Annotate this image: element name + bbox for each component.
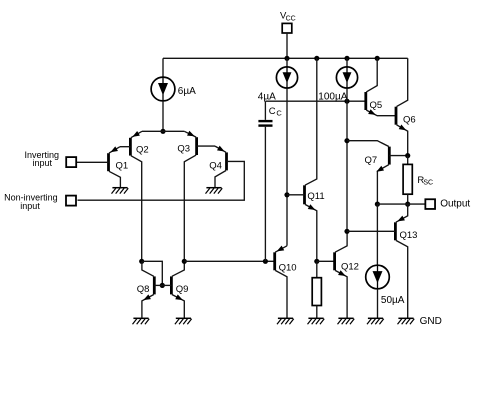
svg-text:Q13: Q13	[400, 230, 418, 241]
svg-text:Q9: Q9	[176, 284, 189, 295]
svg-text:SC: SC	[423, 180, 433, 187]
svg-text:CC: CC	[286, 16, 296, 23]
svg-text:GND: GND	[420, 316, 442, 327]
svg-text:C: C	[269, 106, 276, 117]
svg-text:50µA: 50µA	[381, 295, 405, 306]
svg-text:Q7: Q7	[365, 155, 378, 166]
svg-text:Q8: Q8	[137, 284, 150, 295]
svg-text:Q2: Q2	[136, 144, 149, 155]
svg-text:Q6: Q6	[403, 114, 416, 125]
svg-text:Q4: Q4	[209, 160, 222, 171]
svg-text:input: input	[33, 158, 53, 168]
svg-text:Q12: Q12	[341, 262, 359, 273]
svg-text:Q3: Q3	[177, 143, 190, 154]
svg-text:Q1: Q1	[116, 161, 129, 172]
svg-text:100µA: 100µA	[318, 92, 347, 103]
svg-text:Q5: Q5	[370, 100, 383, 111]
svg-text:Q10: Q10	[279, 262, 297, 273]
svg-text:6µA: 6µA	[178, 86, 196, 97]
svg-text:C: C	[276, 109, 282, 118]
svg-text:Output: Output	[440, 199, 470, 210]
svg-text:4µA: 4µA	[258, 92, 276, 103]
svg-text:input: input	[20, 201, 40, 211]
svg-text:Q11: Q11	[307, 191, 324, 202]
